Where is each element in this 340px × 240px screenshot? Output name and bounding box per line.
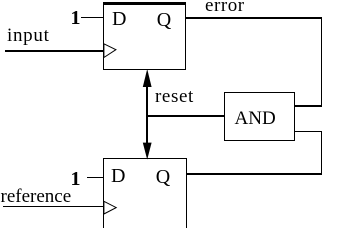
- wire: 1 to U2 D input: [87, 177, 104, 179]
- wire: reference to U2 clock: [3, 206, 104, 208]
- wire: AND gate bottom input (right side): [294, 131, 322, 132]
- wire: 1 to U1 D input: [81, 17, 104, 18]
- pin label Q of U1: [157, 10, 171, 30]
- pin label D of U1: [112, 9, 126, 29]
- wire: error net vertical down to AND input: [321, 17, 322, 106]
- wire: AND output to reset line: [147, 115, 225, 117]
- label error: [205, 0, 245, 15]
- label reference: [1, 187, 72, 206]
- pin label Q of U2: [156, 167, 170, 187]
- AND gate U3 box: [224, 92, 295, 141]
- wire: U1 Q output to error net: [186, 17, 322, 18]
- flip-flop U1 box (top D flip-flop): [103, 2, 186, 70]
- label input: [7, 26, 50, 45]
- wire: reset vertical shaft: [146, 78, 148, 149]
- label reset: [155, 87, 194, 106]
- wire: input to U1 clock: [5, 50, 104, 52]
- wire: U2 Q output net: [186, 173, 322, 174]
- constant 1 label (U2 D input): [71, 169, 81, 189]
- pin label D of U2: [111, 166, 125, 186]
- wire: vertical from AND bottom input down to U2 Q net: [321, 131, 322, 175]
- constant 1 label (U1 D input): [71, 8, 81, 28]
- flip-flop U2 box (bottom D flip-flop): [103, 158, 187, 238]
- label AND: [235, 109, 276, 128]
- wire: AND gate top input (right side): [294, 105, 322, 106]
